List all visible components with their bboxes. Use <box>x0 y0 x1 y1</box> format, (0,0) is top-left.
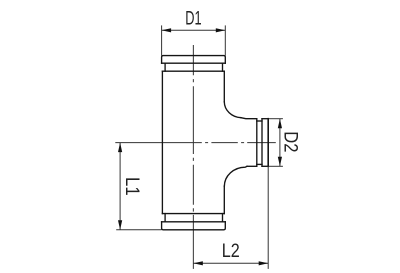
top groove/body edge <box>162 70 224 72</box>
svg-text:D2: D2 <box>280 131 302 152</box>
branch groove top edge <box>257 120 262 122</box>
bottom band/groove edge <box>162 221 226 223</box>
dimension lines group <box>116 25 283 269</box>
D2 dimension line <box>279 119 281 167</box>
branch neck/groove boundary <box>256 119 258 167</box>
D2 extension top <box>269 118 283 120</box>
arrowheads <box>118 28 282 265</box>
D2 extension bottom <box>269 165 283 167</box>
svg-text:L1: L1 <box>121 177 143 196</box>
D1 extension right <box>224 25 226 55</box>
D2 bottom arrow <box>278 157 282 167</box>
centerline horizontal (branch axis) <box>205 142 276 144</box>
centerline vertical (main axis) <box>192 45 194 228</box>
top band/groove edge <box>162 62 226 64</box>
L1 bottom arrow <box>118 220 122 230</box>
body right wall lower <box>223 186 225 213</box>
branch end face <box>267 119 269 167</box>
top socket face and band walls <box>162 56 226 64</box>
branch groove/band boundary <box>261 119 263 167</box>
branch groove bottom edge <box>257 163 262 165</box>
D1 left arrow <box>162 28 172 32</box>
branch neck bottom edge <box>247 165 257 167</box>
L2 left arrow <box>193 261 203 265</box>
branch neck top edge <box>241 118 257 119</box>
centerline vertical lower solid part / L2 left extension <box>192 228 194 269</box>
bottom groove right wall <box>222 214 224 222</box>
tee body outline <box>162 56 269 230</box>
D1 dimension line <box>162 29 226 31</box>
L1 top arrow <box>118 143 122 153</box>
D2 top arrow <box>278 119 282 129</box>
branch top fillet <box>224 102 241 118</box>
D1 right arrow <box>216 28 226 32</box>
L1 dimension line <box>119 143 121 230</box>
centerline horizontal solid part / L1 top extension <box>115 142 202 144</box>
branch band bottom edge <box>262 165 268 167</box>
body left wall <box>161 71 163 213</box>
D1 extension left <box>161 25 163 55</box>
svg-text:L2: L2 <box>222 240 240 262</box>
bottom socket face and band walls <box>162 222 226 230</box>
L1 bottom extension <box>116 229 161 231</box>
L2 right arrow <box>259 261 269 265</box>
body right wall upper <box>223 71 225 102</box>
branch band top edge <box>262 118 268 120</box>
svg-text:D1: D1 <box>185 7 201 29</box>
top groove left wall <box>164 63 166 71</box>
L2 dimension line <box>193 262 268 264</box>
top groove right wall <box>222 63 224 71</box>
bottom groove/body edge <box>162 213 224 215</box>
bottom groove left wall <box>164 214 166 222</box>
branch bottom fillet <box>224 166 247 186</box>
L2 right extension <box>267 166 269 269</box>
